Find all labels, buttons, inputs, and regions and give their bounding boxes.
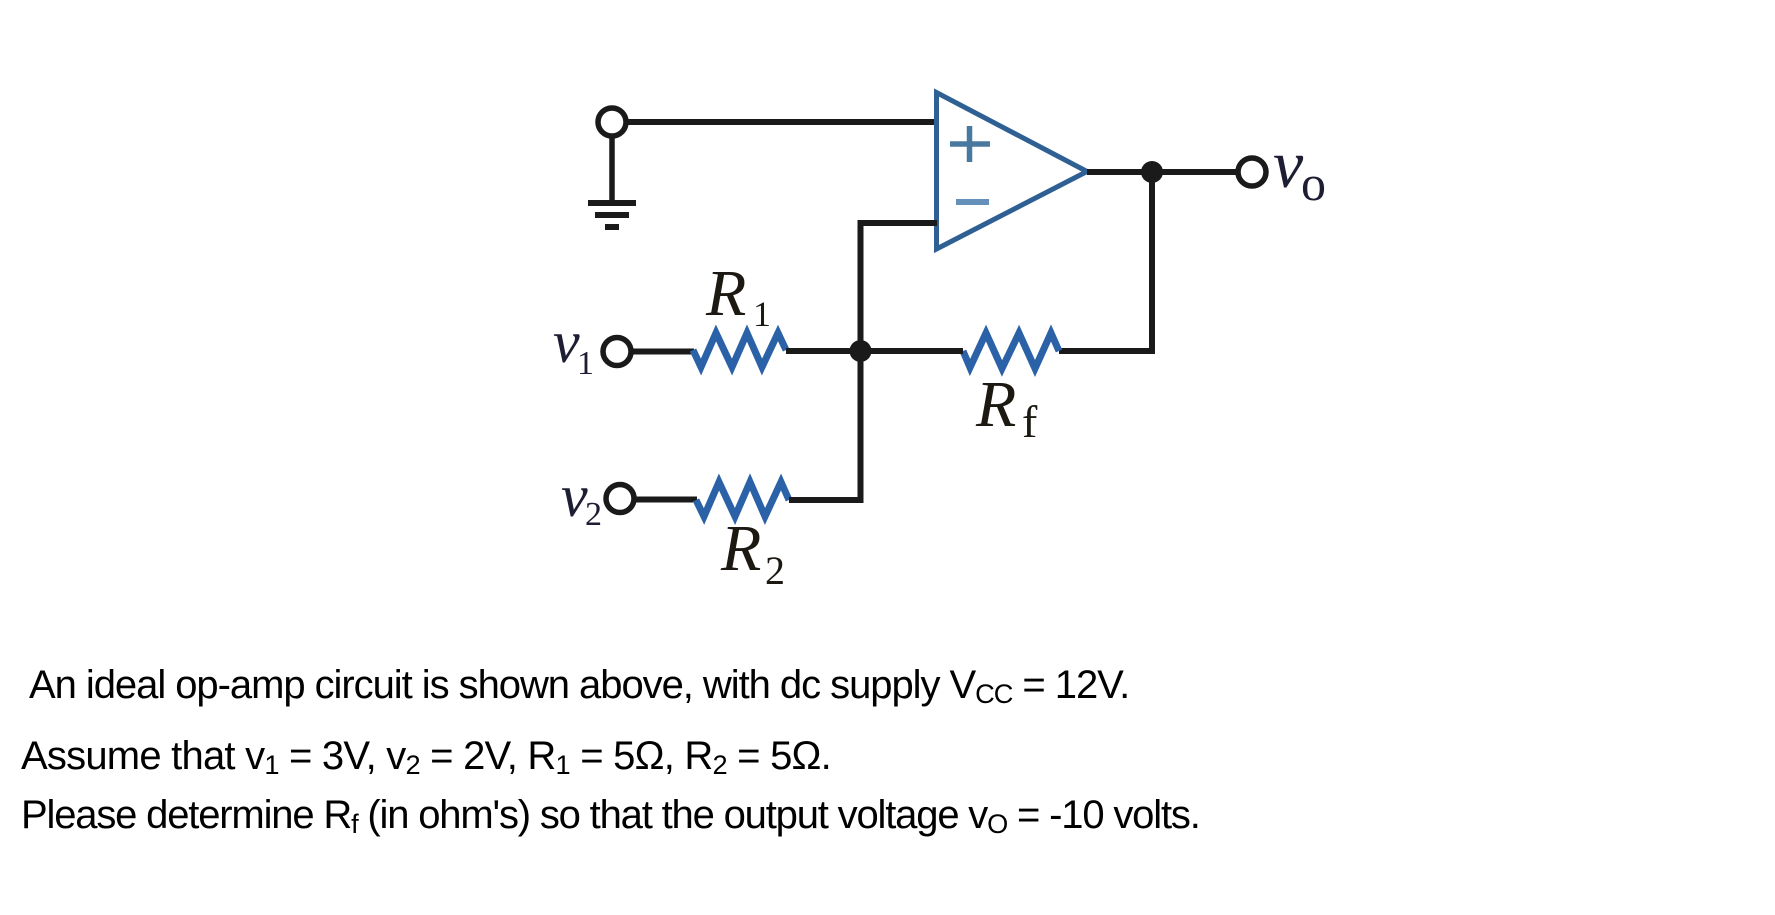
svg-text:f: f (1022, 396, 1038, 447)
terminal v2 (606, 485, 634, 513)
svg-text:R: R (705, 257, 746, 330)
wire R2 right lead (789, 497, 864, 503)
caption line 1 (29, 663, 1129, 711)
svg-text:1: 1 (753, 294, 771, 334)
resistor R2 (696, 482, 789, 517)
svg-text:2: 2 (765, 548, 785, 593)
svg-text:v: v (1273, 126, 1304, 202)
wire op-amp output (1087, 169, 1240, 175)
resistor Rf (963, 333, 1059, 369)
svg-text:o: o (1301, 155, 1326, 211)
svg-text:1: 1 (577, 345, 594, 382)
resistor R1 (693, 333, 786, 367)
ground (588, 203, 636, 227)
svg-text:R: R (720, 512, 761, 585)
wire top-left terminal to op-amp noninverting input (628, 119, 937, 125)
svg-text:2: 2 (585, 496, 602, 533)
terminal vo (1238, 158, 1266, 186)
terminal v1 (603, 338, 631, 366)
terminal top-left ground terminal (598, 108, 626, 136)
wire ground stem (609, 138, 615, 201)
wire Rf right lead (1059, 348, 1155, 354)
wire R1 right lead (786, 348, 861, 354)
wire to op-amp inverting input (858, 220, 938, 226)
op-amp U1 (937, 93, 1088, 250)
wire Rf left lead (861, 348, 963, 354)
caption line 2 (21, 734, 831, 782)
caption line 3 (21, 793, 1200, 841)
svg-text:R: R (975, 368, 1016, 441)
node output junction (1141, 161, 1163, 183)
svg-text:v: v (553, 309, 580, 375)
svg-text:v: v (561, 463, 588, 529)
wire vertical from minus input through node to R2 (858, 223, 864, 503)
wire v1 lead (633, 349, 694, 355)
wire v2 lead (636, 497, 697, 503)
wire feedback vertical right (1149, 172, 1155, 354)
node inverting input junction (850, 340, 872, 362)
